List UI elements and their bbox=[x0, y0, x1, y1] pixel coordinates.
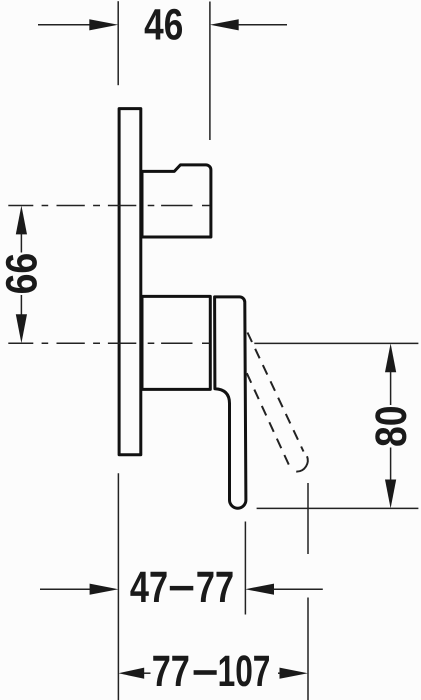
dim 77-107 right arrowhead bbox=[280, 668, 308, 679]
dim 80 top extension line bbox=[254, 342, 418, 344]
dim 66 upper shaft bbox=[20, 234, 22, 253]
svg-text:46: 46 bbox=[144, 0, 183, 49]
dim 80 lower shaft bbox=[390, 448, 392, 481]
dim 47-77 left leader line bbox=[40, 588, 91, 590]
dim 46 right extension line bbox=[209, 2, 211, 141]
lever open position tip arc (dashed) bbox=[292, 452, 308, 472]
lever open position inner edge (dashed) bbox=[247, 373, 292, 470]
dim 77-107 left shaft bbox=[144, 672, 151, 674]
dim 47-77 right leader line bbox=[274, 588, 323, 590]
cartridge block (lever base) bbox=[142, 296, 210, 389]
dim 46 right leader line bbox=[238, 24, 287, 26]
dim 46 right arrowhead bbox=[210, 19, 239, 30]
svg-text:77: 77 bbox=[196, 563, 234, 612]
svg-text:107: 107 bbox=[218, 647, 271, 696]
dim 80 bottom extension line bbox=[257, 507, 419, 509]
wall plate bbox=[119, 109, 141, 455]
centerline lower (lever axis) bbox=[8, 342, 210, 344]
lever open position (dashed) bbox=[248, 333, 304, 452]
dim 46 left extension line bbox=[117, 1, 119, 85]
dim 77-107 right shaft bbox=[278, 672, 281, 674]
dim 66 lower shaft bbox=[20, 295, 22, 315]
svg-text:77: 77 bbox=[152, 647, 190, 696]
dim 77-107 left arrowhead bbox=[118, 668, 144, 679]
dim 80 top arrowhead bbox=[385, 343, 396, 372]
svg-text:66: 66 bbox=[0, 253, 46, 295]
dim 77-107 right extension line bbox=[307, 483, 309, 700]
knob (upper handle) bbox=[142, 165, 211, 237]
dim 47-77 right arrowhead bbox=[245, 584, 274, 595]
left extension line (plate face) bbox=[117, 473, 119, 700]
dim 66 top arrowhead bbox=[16, 206, 27, 235]
lever handle (closed position) bbox=[215, 297, 246, 508]
centerline upper (knob axis) bbox=[8, 205, 210, 207]
svg-text:47: 47 bbox=[130, 563, 168, 612]
dim 46 left leader line bbox=[38, 24, 90, 26]
dim 46 left arrowhead bbox=[89, 19, 118, 30]
dim 66 bottom arrowhead bbox=[16, 314, 27, 343]
dim 80 upper shaft bbox=[390, 372, 392, 406]
dim 47-77 right extension line bbox=[244, 522, 246, 615]
dim 47-77 left arrowhead bbox=[90, 584, 119, 595]
dim 80 bottom arrowhead bbox=[385, 480, 396, 509]
svg-text:80: 80 bbox=[367, 405, 416, 447]
